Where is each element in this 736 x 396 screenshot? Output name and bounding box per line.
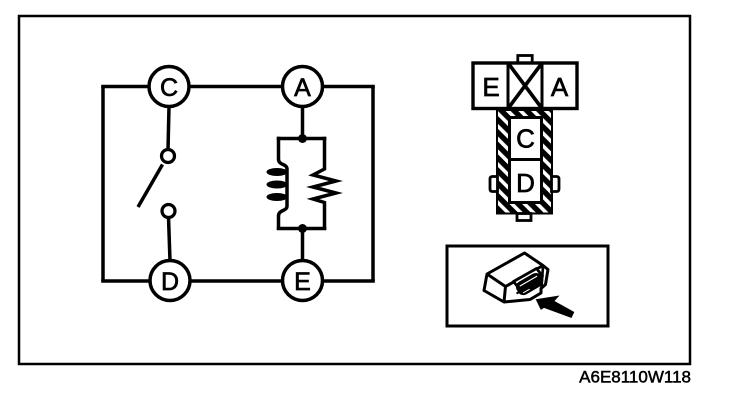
svg-text:E: E: [482, 72, 499, 102]
wire node to E: [301, 229, 305, 262]
relay connector shroud: [514, 269, 543, 290]
switch blade: [138, 165, 163, 208]
relay connector lower lip: [517, 288, 528, 294]
node bottom junction dot: [298, 224, 307, 233]
node top junction dot: [298, 134, 307, 143]
terminal label E: [482, 72, 499, 102]
connector index tab top: [518, 56, 532, 65]
wire left side (C-D loop): [101, 87, 105, 282]
terminal label A: [551, 72, 569, 102]
body tab bottom: [517, 214, 531, 221]
svg-text:C: C: [160, 74, 178, 102]
svg-text:A6E8110W118: A6E8110W118: [579, 368, 691, 387]
pointer arrow: [536, 296, 575, 319]
body latch left: [490, 177, 498, 192]
coil (inductor branch): [267, 137, 288, 230]
cell divider right: [541, 63, 544, 109]
cell divider left: [507, 63, 510, 109]
body latch right: [552, 177, 560, 192]
wire right side (A-E loop): [371, 87, 375, 282]
wire A to node: [301, 107, 305, 139]
wire parallel top: [277, 137, 327, 141]
svg-text:D: D: [516, 168, 535, 198]
cavity C: [510, 118, 542, 160]
wire bottom side (D to E): [101, 279, 375, 283]
svg-text:A: A: [551, 72, 569, 102]
wire C to switch: [168, 107, 169, 151]
svg-text:C: C: [516, 124, 535, 154]
wire parallel bottom: [277, 227, 327, 231]
terminal A: [283, 67, 323, 107]
terminal D: [150, 261, 190, 301]
connector body hatched shell: [497, 110, 552, 214]
wire top side (C to A): [101, 85, 375, 89]
connector terminal row outline: [473, 63, 577, 109]
terminal C: [149, 67, 189, 107]
wire switch to D: [169, 217, 171, 261]
keyway X: [508, 63, 542, 109]
svg-text:E: E: [294, 268, 311, 296]
cavity D: [510, 160, 542, 203]
terminal E: [283, 261, 323, 301]
relay connector face: [514, 271, 545, 298]
svg-text:A: A: [294, 74, 311, 102]
switch upper contact: [162, 150, 175, 163]
relay illustration box: [447, 246, 608, 326]
switch lower contact: [162, 205, 175, 218]
figure id A6E8110W118: [579, 368, 691, 387]
relay body silhouette: [484, 253, 548, 302]
svg-text:D: D: [161, 268, 179, 296]
relay top face edges: [487, 266, 543, 303]
resistor branch: [313, 137, 336, 230]
